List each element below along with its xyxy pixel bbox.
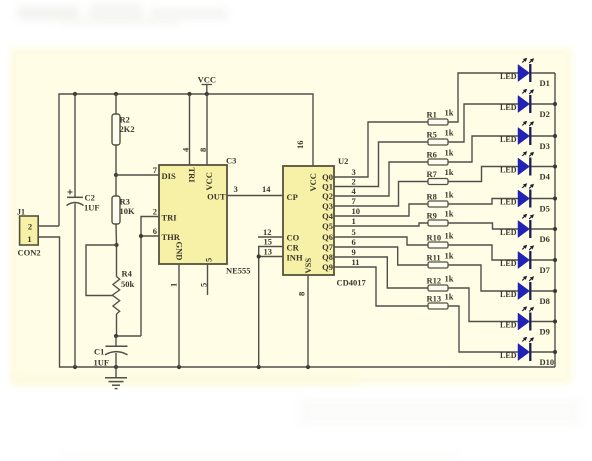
wire U2 CR pin15 to ground: [259, 247, 283, 368]
svg-text:VSS: VSS: [303, 258, 313, 274]
wire R13 to LED D10: [448, 306, 518, 352]
svg-text:Q1: Q1: [322, 182, 333, 192]
junction top rail C2: [73, 92, 77, 96]
svg-text:VCC: VCC: [308, 173, 318, 191]
svg-text:OUT: OUT: [207, 192, 226, 202]
svg-text:Q9: Q9: [322, 262, 333, 272]
resistor R9 1k: [427, 209, 454, 227]
svg-text:D6: D6: [540, 234, 550, 244]
svg-text:VCC: VCC: [204, 172, 214, 190]
wire R9 to LED D6: [448, 223, 518, 229]
junction bottom rail 555 pin1: [177, 365, 181, 369]
resistor R11 1k: [427, 251, 454, 269]
wire R2 to DIS node: [115, 145, 117, 175]
wire U2 Q4 to R8: [334, 204, 428, 216]
ground: [105, 367, 127, 389]
resistor R10 1k: [427, 231, 454, 249]
wire LED D4 cathode to bus: [532, 166, 556, 168]
svg-text:LED: LED: [500, 72, 517, 81]
resistor R5 1k: [427, 128, 454, 146]
svg-text:2K2: 2K2: [120, 124, 135, 134]
svg-text:10K: 10K: [120, 206, 136, 216]
wire R12 to LED D9: [448, 288, 518, 322]
wire LED D1 cathode to bus: [532, 72, 556, 74]
svg-text:2: 2: [28, 222, 32, 232]
wire R10 to LED D7: [448, 245, 518, 260]
svg-text:1k: 1k: [445, 274, 454, 284]
wire VCC rail to 555 pin8: [206, 94, 208, 165]
svg-text:Q3: Q3: [322, 201, 333, 211]
svg-text:1: 1: [169, 283, 179, 287]
junction C1 top: [114, 334, 118, 338]
wire R5 to LED D2: [448, 104, 518, 142]
svg-text:CR: CR: [287, 243, 300, 253]
LED D6: [500, 214, 534, 238]
wire R1 to LED D1: [448, 73, 518, 122]
LED D10: [500, 337, 534, 361]
svg-text:1UF: 1UF: [84, 203, 100, 213]
wire LED D5 cathode to bus: [532, 198, 556, 200]
wire U2 Q6 to R10: [334, 237, 428, 245]
LED D9: [500, 306, 534, 330]
svg-text:R8: R8: [427, 192, 437, 202]
svg-text:Q5: Q5: [322, 221, 333, 231]
svg-text:1k: 1k: [445, 128, 454, 138]
wire U2 Q3 to R7: [334, 182, 428, 207]
resistor R2 2K2: [112, 114, 135, 145]
svg-text:1UF: 1UF: [94, 358, 110, 368]
junction R4 top: [114, 243, 118, 247]
wire J1 pin1 to ground: [38, 236, 59, 238]
svg-text:LED: LED: [500, 351, 517, 360]
resistor R1 1k: [427, 108, 454, 126]
bottom-left yellow extension: [12, 372, 357, 386]
junction bottom rail C1: [114, 365, 118, 369]
svg-text:13: 13: [264, 247, 273, 257]
wire LED D10 cathode to bus: [532, 351, 556, 353]
junction INH node: [257, 254, 261, 258]
wire U2 CO pin12 stub: [258, 236, 283, 238]
junction bottom rail VSS: [306, 365, 310, 369]
svg-text:VCC: VCC: [198, 75, 216, 85]
resistor R8 1k: [427, 190, 454, 208]
svg-text:2: 2: [352, 177, 356, 187]
svg-text:Q2: Q2: [322, 191, 333, 201]
wire R11 to LED D8: [448, 265, 518, 291]
LED D2: [500, 89, 534, 113]
wire U2 Q9 to R13: [334, 267, 428, 306]
wire U2 Q2 to R6: [334, 162, 428, 196]
svg-text:CO: CO: [287, 233, 300, 243]
LED D7: [500, 245, 534, 269]
wire U2 Q7 to R11: [334, 247, 428, 265]
svg-text:GND: GND: [175, 242, 185, 261]
junction bottom rail CR/INH: [257, 365, 261, 369]
svg-text:2: 2: [153, 207, 157, 217]
svg-text:LED: LED: [500, 320, 517, 329]
svg-text:5: 5: [204, 258, 214, 262]
wire VCC rail to 555 pin4: [189, 94, 191, 165]
wire J1 pin2 to VCC rail: [38, 225, 59, 227]
svg-text:6: 6: [153, 226, 157, 236]
wire LED D8 cathode to bus: [532, 290, 556, 292]
counter U2 CD4017: [283, 166, 334, 275]
junction bus D5: [553, 196, 557, 200]
svg-text:R13: R13: [427, 294, 442, 304]
resistor R3 10K: [112, 196, 135, 224]
wire R8 to LED D5: [448, 199, 518, 205]
wire 555 pin1 to ground rail: [178, 264, 180, 367]
svg-text:6: 6: [352, 237, 356, 247]
junction top rail R2: [114, 92, 118, 96]
wire C2 bottom: [74, 204, 76, 368]
junction bus D2: [553, 102, 557, 106]
LED D3: [500, 121, 534, 145]
svg-text:50k: 50k: [121, 279, 135, 289]
svg-text:R11: R11: [427, 253, 441, 263]
svg-text:LED: LED: [500, 165, 517, 174]
svg-text:LED: LED: [500, 290, 517, 299]
svg-text:NE555: NE555: [226, 266, 251, 276]
svg-text:LED: LED: [500, 103, 517, 112]
svg-text:CD4017: CD4017: [337, 278, 367, 288]
resistor R6 1k: [427, 148, 454, 166]
svg-text:1k: 1k: [445, 108, 454, 118]
svg-text:LED: LED: [500, 228, 517, 237]
svg-text:10: 10: [352, 206, 361, 216]
svg-text:R9: R9: [427, 211, 437, 221]
junction bus D4: [553, 164, 557, 168]
wire 555 pin6 THR to node: [141, 235, 159, 237]
svg-text:J1: J1: [17, 208, 25, 217]
svg-text:8: 8: [297, 292, 307, 296]
svg-text:CP: CP: [287, 192, 298, 202]
svg-text:5: 5: [352, 227, 356, 237]
wire VCC top rail: [59, 94, 313, 226]
schematic yellow background: [10, 48, 572, 384]
svg-text:C2: C2: [85, 193, 95, 203]
wire VCC rail to R2: [115, 94, 117, 114]
wire R4 wiper loop: [86, 245, 117, 296]
svg-text:D1: D1: [540, 78, 550, 88]
wire U2 VSS pin8 to ground rail: [307, 275, 309, 367]
wire C2 top: [74, 94, 76, 197]
resistor R4 50k (rheostat): [112, 269, 134, 315]
svg-text:D9: D9: [540, 327, 550, 337]
svg-text:Q6: Q6: [322, 232, 333, 242]
wire R3 to R4: [115, 224, 118, 245]
svg-text:9: 9: [352, 247, 356, 257]
svg-text:R1: R1: [427, 110, 437, 120]
wire ground bottom rail: [59, 237, 555, 367]
LED D1: [500, 58, 534, 82]
junction bottom rail C2: [73, 365, 77, 369]
wire LED D9 cathode to bus: [532, 321, 556, 323]
svg-text:U2: U2: [338, 156, 348, 166]
svg-text:15: 15: [264, 237, 273, 247]
wire LED D3 cathode to bus: [532, 135, 556, 137]
svg-text:R6: R6: [427, 150, 437, 160]
svg-text:LED: LED: [500, 197, 517, 206]
wire C1 bottom lead: [115, 353, 117, 367]
svg-text:1k: 1k: [445, 209, 454, 219]
svg-text:THR: THR: [162, 232, 181, 242]
svg-text:R12: R12: [427, 276, 442, 286]
wire R4 top lead: [116, 245, 118, 277]
capacitor C1 1UF: [94, 346, 128, 367]
VCC symbol: [198, 75, 216, 95]
wire node down to C1 top: [116, 335, 141, 337]
wire U2 Q0 to R1: [334, 122, 428, 177]
svg-text:3: 3: [234, 184, 238, 194]
svg-text:D4: D4: [540, 172, 551, 182]
svg-text:D5: D5: [540, 204, 550, 214]
wire LED D7 cathode to bus: [532, 259, 556, 261]
resistor R12 1k: [427, 274, 454, 292]
wire R6 to LED D3: [448, 136, 518, 162]
wire U2 Q8 to R12: [334, 257, 428, 288]
svg-text:R4: R4: [122, 269, 133, 279]
wire U2 Q1 to R5: [334, 142, 428, 187]
resistor R7 1k: [427, 167, 454, 185]
svg-text:INH: INH: [287, 253, 303, 263]
junction bus D8: [553, 289, 557, 293]
wire LED common cathode bus: [554, 73, 556, 367]
op-amp/timer U1 NE555: [159, 165, 227, 264]
svg-text:12: 12: [263, 227, 272, 237]
connector J1 CON2: [17, 208, 41, 258]
svg-text:R7: R7: [427, 169, 438, 179]
junction top rail VCC stub: [205, 92, 209, 96]
LED D8: [500, 276, 534, 300]
junction THR node: [139, 234, 143, 238]
svg-text:LED: LED: [500, 259, 517, 268]
svg-text:D8: D8: [540, 296, 550, 306]
svg-text:R3: R3: [120, 197, 130, 207]
wire R3 top: [115, 175, 117, 196]
LED D4: [500, 151, 534, 175]
junction bus D6: [553, 227, 557, 231]
wire R7 to LED D4: [448, 167, 518, 182]
LED D5: [500, 183, 534, 207]
svg-text:D10: D10: [540, 357, 555, 367]
svg-text:1: 1: [27, 234, 31, 244]
wire U2 Q5 to R9: [334, 223, 428, 226]
svg-text:TRI: TRI: [162, 213, 178, 223]
top-left scan smudge: [18, 4, 228, 25]
svg-text:R10: R10: [427, 233, 442, 243]
wire C1 top lead: [115, 336, 117, 346]
svg-text:3: 3: [352, 167, 356, 177]
wire U2 INH pin13 to node: [259, 256, 283, 258]
svg-text:11: 11: [352, 257, 360, 267]
svg-text:1k: 1k: [445, 190, 454, 200]
svg-text:LED: LED: [500, 135, 517, 144]
junction top rail pin4: [187, 92, 191, 96]
junction bus D10: [553, 350, 557, 354]
wire R4 bottom lead: [116, 314, 118, 336]
svg-text:Q4: Q4: [322, 211, 334, 221]
svg-text:DIS: DIS: [162, 171, 176, 181]
svg-text:1: 1: [352, 216, 356, 226]
svg-text:Q7: Q7: [322, 242, 334, 252]
junction bus D7: [553, 258, 557, 262]
svg-text:TRI: TRI: [187, 168, 197, 184]
svg-text:16: 16: [295, 141, 305, 150]
junction bus D9: [553, 319, 557, 323]
svg-text:Q8: Q8: [322, 252, 333, 262]
svg-text:1k: 1k: [445, 167, 454, 177]
svg-text:D7: D7: [540, 265, 551, 275]
wire DIS node to pin7: [116, 174, 159, 176]
svg-text:1k: 1k: [445, 231, 454, 241]
wire 555 pin2 TRI to node: [141, 217, 159, 337]
junction DIS node: [114, 173, 118, 177]
svg-text:1k: 1k: [445, 292, 454, 302]
svg-text:Q0: Q0: [322, 172, 333, 182]
wire 555 OUT to U2 CP: [227, 195, 283, 197]
svg-text:1k: 1k: [445, 251, 454, 261]
capacitor C2 1UF: [67, 190, 100, 213]
svg-text:D2: D2: [540, 109, 550, 119]
svg-text:D3: D3: [540, 141, 550, 151]
svg-text:14: 14: [262, 184, 271, 194]
svg-text:C1: C1: [94, 347, 104, 357]
junction bus D3: [553, 134, 557, 138]
wire 555 pin5 stub: [207, 264, 209, 295]
svg-text:CON2: CON2: [18, 248, 41, 258]
svg-text:1k: 1k: [445, 148, 454, 158]
svg-text:C3: C3: [226, 156, 236, 166]
bottom scan smudge: [60, 398, 580, 458]
svg-text:R2: R2: [120, 115, 130, 125]
wire LED D2 cathode to bus: [532, 103, 556, 105]
wire LED D6 cathode to bus: [532, 228, 556, 230]
resistor R13 1k: [427, 292, 454, 310]
svg-text:R5: R5: [427, 130, 437, 140]
